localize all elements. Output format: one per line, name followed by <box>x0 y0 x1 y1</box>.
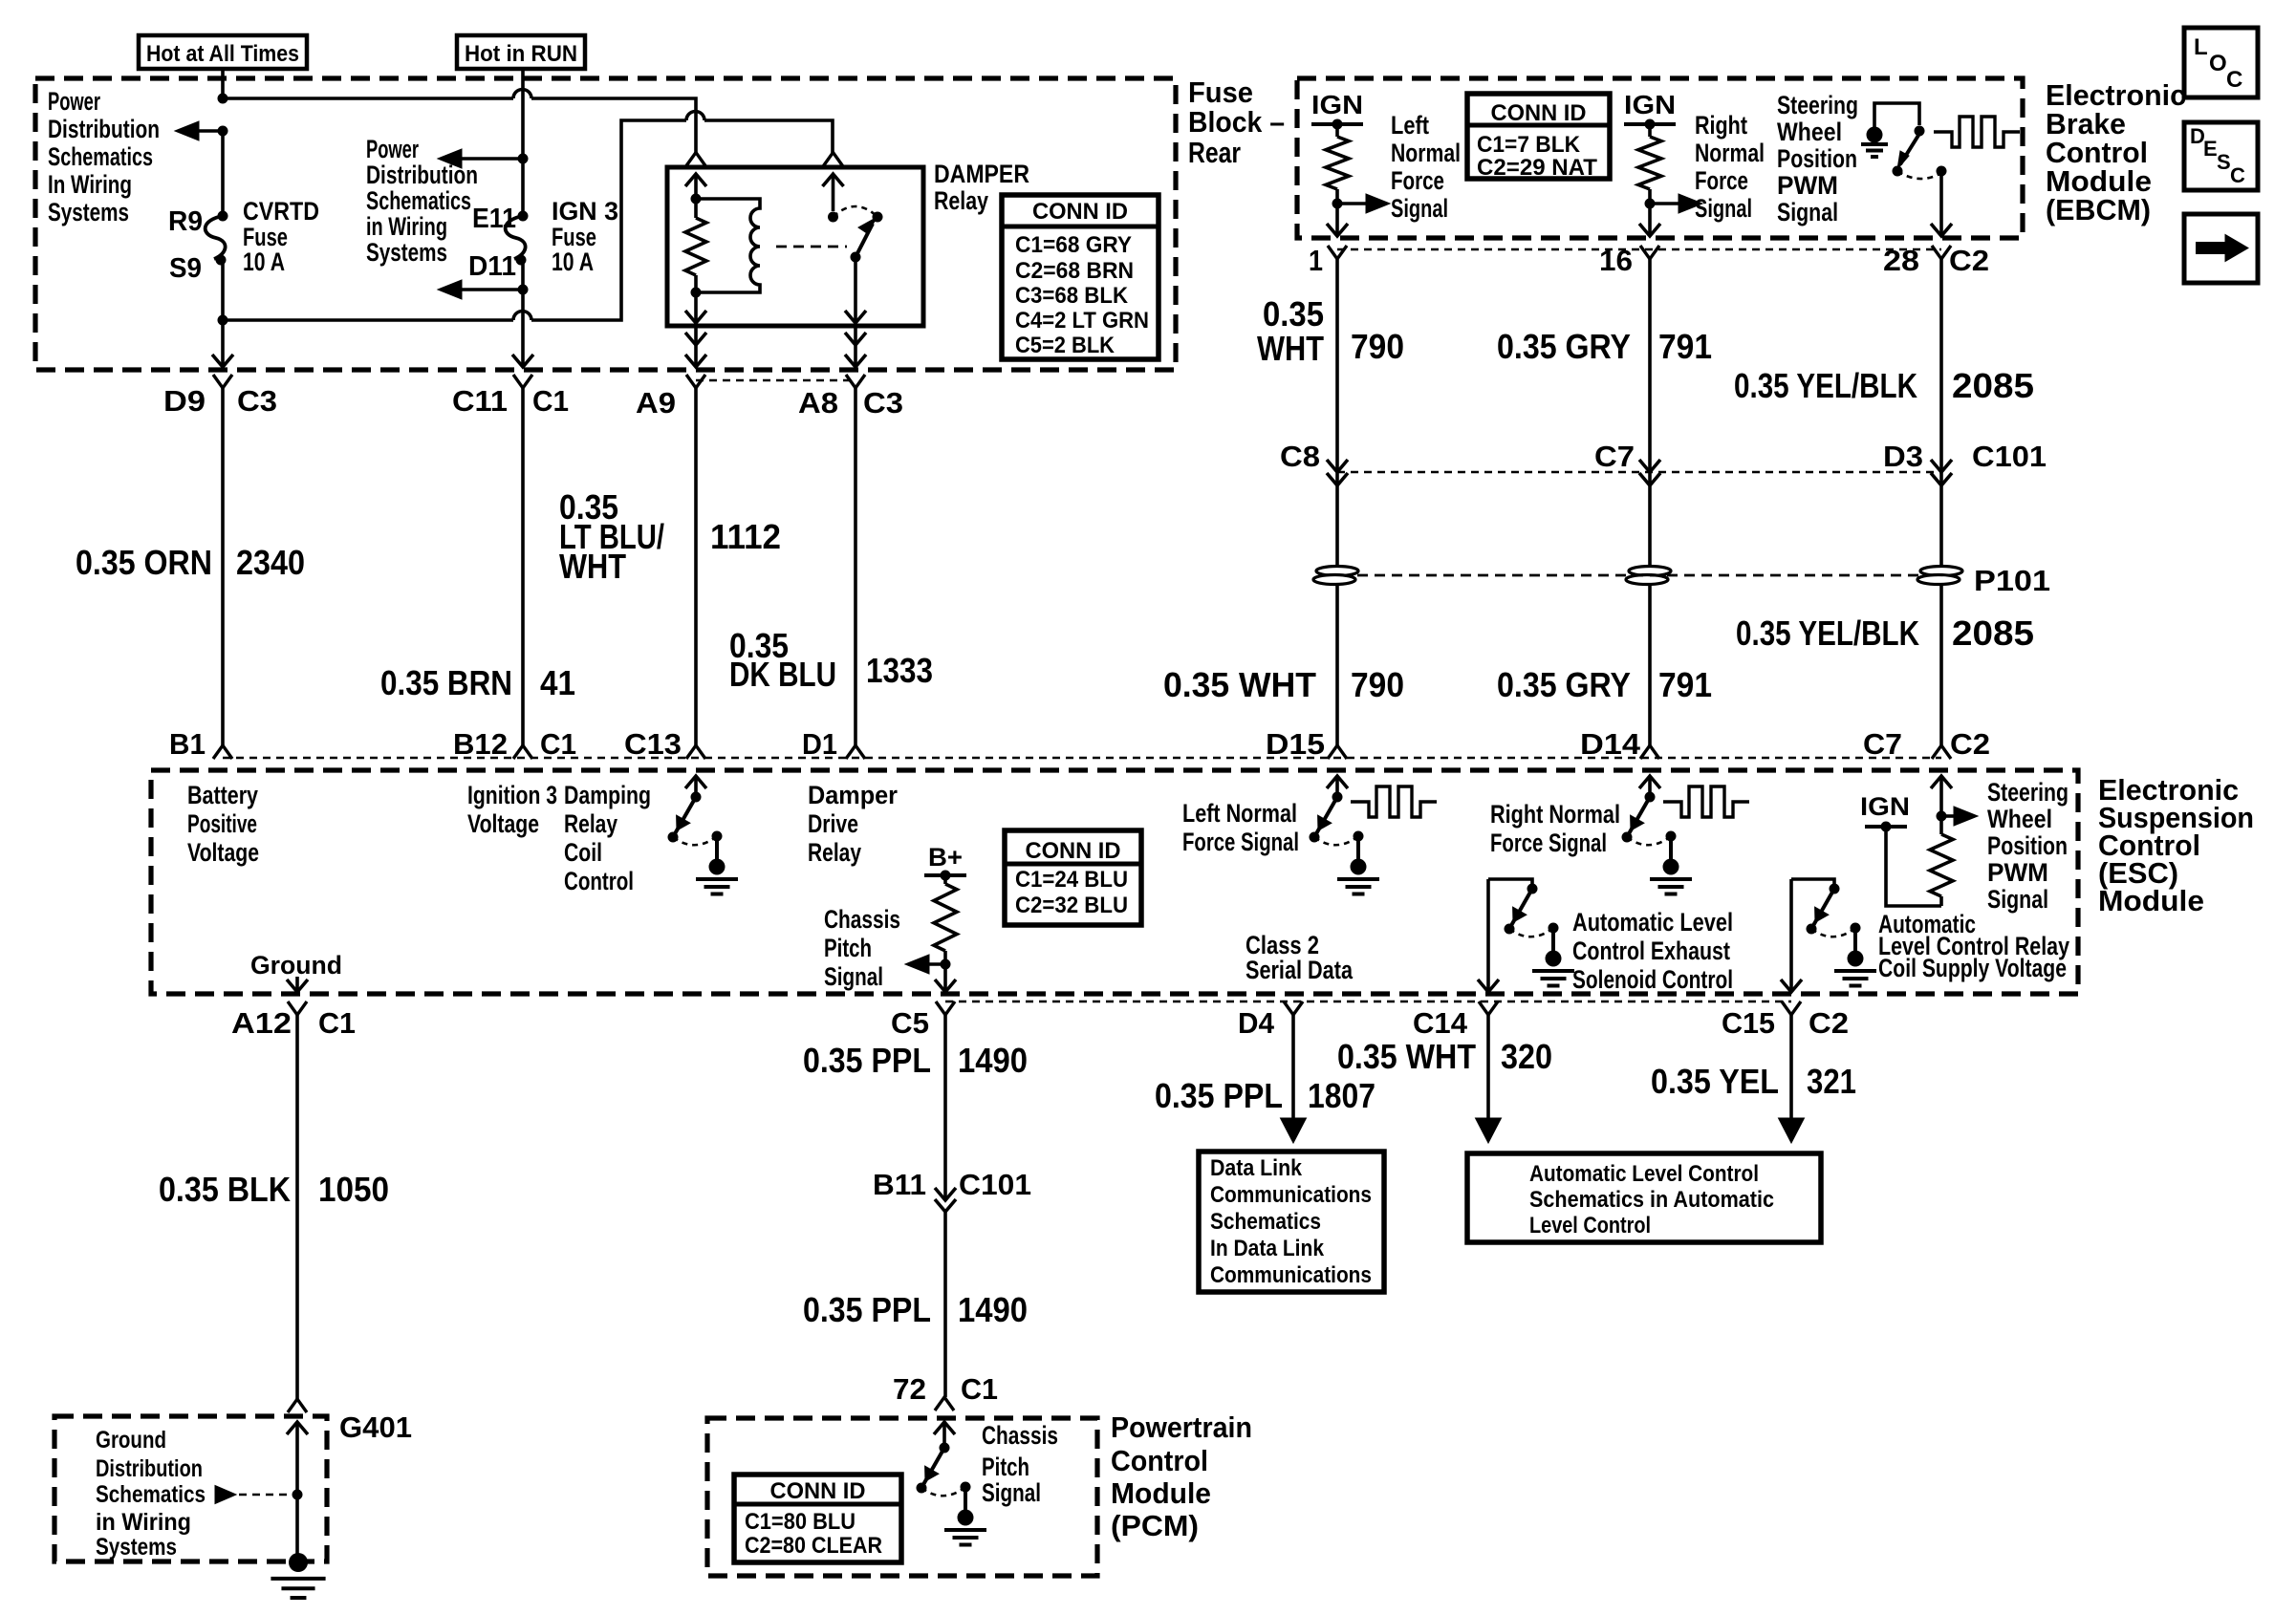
svg-text:Signal: Signal <box>824 962 883 991</box>
svg-text:Hot in RUN: Hot in RUN <box>465 41 577 67</box>
svg-text:790: 790 <box>1351 327 1404 366</box>
table: fuse block CONN ID <box>1002 195 1159 359</box>
node: junction lower arrow on IGN3 wire <box>518 285 529 295</box>
svg-text:D15: D15 <box>1266 727 1325 761</box>
svg-text:0.35 YEL: 0.35 YEL <box>1651 1062 1779 1101</box>
svg-text:Signal: Signal <box>1777 198 1838 226</box>
wire: chassis pitch 0.35 PPL 1490 upper segment <box>943 1015 947 1200</box>
svg-text:Force: Force <box>1695 166 1748 195</box>
arrow: right normal force signal to label <box>1650 202 1681 205</box>
svg-text:Rear: Rear <box>1188 136 1241 169</box>
svg-text:C: C <box>2226 67 2242 93</box>
svg-text:Chassis: Chassis <box>824 905 900 934</box>
svg-text:S9: S9 <box>169 253 202 284</box>
svg-text:C2=29 NAT: C2=29 NAT <box>1477 155 1597 181</box>
svg-text:D11: D11 <box>468 251 516 282</box>
svg-text:C1=24 BLU: C1=24 BLU <box>1015 867 1128 893</box>
arrow: relay switch pin internal <box>823 174 844 186</box>
wire: fused feed from CVRTD to damper relay switch with hop over IGN3 wire <box>223 112 833 321</box>
ground: G401 chassis ground <box>289 1553 308 1572</box>
switch: relay movable arm <box>873 212 883 223</box>
reference box: LOC <box>2184 28 2258 97</box>
svg-text:IGN: IGN <box>1624 90 1676 119</box>
dashed connector line ESC bottom <box>945 1001 1791 1002</box>
connector feathers: ESC pin D15 <box>1328 745 1347 759</box>
svg-text:G401: G401 <box>339 1410 412 1444</box>
svg-text:0.35 GRY: 0.35 GRY <box>1497 665 1631 704</box>
svg-text:CONN ID: CONN ID <box>1032 199 1128 225</box>
svg-text:C2: C2 <box>1809 1006 1849 1040</box>
svg-text:Right: Right <box>1695 111 1747 140</box>
svg-text:in Wiring: in Wiring <box>366 212 447 241</box>
dashed connector line C101 <box>1337 471 1941 473</box>
svg-text:1807: 1807 <box>1308 1076 1375 1115</box>
svg-text:Schematics: Schematics <box>1210 1209 1321 1235</box>
ground: steering wheel position switch ground (EBCM) <box>1867 127 1883 143</box>
svg-text:C4=2 LT GRN: C4=2 LT GRN <box>1015 308 1149 334</box>
arrow: power distribution reference upper left from IGN3 wire <box>461 157 523 161</box>
svg-text:CVRTD: CVRTD <box>243 197 319 226</box>
svg-text:In Wiring: In Wiring <box>48 170 132 199</box>
power feed label box: Hot in RUN <box>457 35 585 69</box>
node: relay arm pivot <box>851 252 861 263</box>
node: chassis pitch signal junction <box>941 959 951 970</box>
svg-text:(EBCM): (EBCM) <box>2046 193 2151 226</box>
svg-text:C1: C1 <box>318 1006 356 1040</box>
svg-text:320: 320 <box>1501 1037 1552 1076</box>
fuse: IGN 3 Fuse 10 A <box>506 216 526 259</box>
connector feathers: ESC pin C5 <box>936 1001 955 1015</box>
resistor: right normal force pull-up <box>1648 124 1652 137</box>
svg-text:Control Exhaust: Control Exhaust <box>1572 937 1730 965</box>
svg-text:72: 72 <box>893 1372 926 1406</box>
connector feathers: ESC pin C13 <box>686 745 705 759</box>
svg-text:Signal: Signal <box>982 1478 1041 1507</box>
node: right normal force signal junction <box>1645 199 1656 209</box>
connector feathers: pin A8 <box>846 375 865 388</box>
svg-text:Force: Force <box>1391 166 1444 195</box>
svg-text:CONN ID: CONN ID <box>770 1478 866 1504</box>
svg-text:PWM: PWM <box>1777 171 1838 200</box>
svg-text:D3: D3 <box>1883 440 1923 473</box>
svg-text:Ignition 3: Ignition 3 <box>467 781 557 809</box>
svg-text:Wheel: Wheel <box>1777 118 1842 146</box>
wire: battery feed from Hot at All Times to damper relay coil, hop over IGN3 wire <box>223 69 696 153</box>
svg-text:1490: 1490 <box>958 1041 1028 1080</box>
svg-text:C1: C1 <box>532 384 569 418</box>
svg-text:S: S <box>2217 150 2231 174</box>
arrow: steering wheel position signal to label <box>1941 814 1957 818</box>
svg-text:C2: C2 <box>1949 244 1989 277</box>
svg-text:C11: C11 <box>452 384 508 418</box>
svg-text:C14: C14 <box>1413 1006 1468 1040</box>
svg-text:Systems: Systems <box>366 238 447 267</box>
inline connector P101 on middle wire <box>1629 567 1671 576</box>
wire: steering wheel position 0.35 YEL/BLK 2085 EBCM to ESC C7 <box>1939 259 1943 745</box>
svg-text:Systems: Systems <box>48 198 129 226</box>
svg-text:1490: 1490 <box>958 1290 1028 1329</box>
svg-text:E11: E11 <box>472 204 516 234</box>
relay: DAMPER Relay box <box>667 167 923 326</box>
svg-text:0.35 PPL: 0.35 PPL <box>1155 1076 1283 1115</box>
svg-text:790: 790 <box>1351 665 1404 704</box>
reference box: Data Link Communications <box>1199 1152 1384 1292</box>
resistor: steering wheel position load (ESC) <box>1939 896 1943 906</box>
wire: battery positive 0.35 ORN 2340 to ESC B1 <box>221 388 225 745</box>
svg-text:C1=68 GRY: C1=68 GRY <box>1015 232 1132 258</box>
svg-text:C2=80 CLEAR: C2=80 CLEAR <box>745 1533 882 1559</box>
svg-text:C1: C1 <box>961 1372 998 1406</box>
svg-text:IGN: IGN <box>1860 792 1910 821</box>
svg-text:Serial Data: Serial Data <box>1245 956 1354 984</box>
svg-text:Distribution: Distribution <box>96 1455 203 1482</box>
svg-text:1112: 1112 <box>710 517 781 556</box>
wire: EBCM pin 16 exit <box>1648 204 1652 236</box>
wire: exhaust solenoid control 0.35 WHT 320 <box>1486 1015 1490 1120</box>
svg-text:Relay: Relay <box>808 838 861 867</box>
svg-text:L: L <box>2194 34 2208 60</box>
svg-text:2340: 2340 <box>236 543 305 582</box>
connector feathers: EBCM pin 1 <box>1328 246 1347 259</box>
svg-text:WHT: WHT <box>559 547 626 586</box>
dashed connector line A9-A8 <box>696 379 856 381</box>
power feed label box: Hot at All Times <box>139 35 307 69</box>
svg-text:B+: B+ <box>928 843 963 872</box>
wire: ground 0.35 BLK 1050 to G401 <box>295 1015 299 1399</box>
arrow: left normal force signal to label <box>1337 202 1369 205</box>
svg-text:Relay: Relay <box>564 809 617 838</box>
svg-text:Communications: Communications <box>1210 1182 1372 1208</box>
node: relay coil top junction <box>691 194 702 205</box>
switch: right normal force signal driver <box>1639 776 1660 788</box>
table: PCM CONN ID <box>734 1475 901 1562</box>
svg-text:Power: Power <box>48 87 100 116</box>
arrow: fuse block exit at C11 <box>512 355 533 367</box>
arrow: ground distribution reference <box>215 1486 236 1504</box>
wire: ESC pin C14 exit <box>1486 879 1490 992</box>
dashed connector line EBCM C2 <box>1337 248 1941 250</box>
reference box: Automatic Level Control Schematics <box>1467 1153 1821 1242</box>
connector feathers: ESC pin B12 <box>513 745 532 759</box>
inline connector P101 on left wire <box>1316 567 1358 576</box>
svg-text:Battery: Battery <box>187 781 258 809</box>
svg-text:1: 1 <box>1309 244 1323 277</box>
svg-text:Position: Position <box>1777 144 1857 173</box>
connector feathers: ESC pin D1 <box>846 745 865 759</box>
arrow: chassis pitch signal to label <box>914 962 945 966</box>
svg-text:B11: B11 <box>873 1168 926 1201</box>
reference box: DESC <box>2184 122 2258 190</box>
svg-text:Block –: Block – <box>1188 105 1285 139</box>
fuse: CVRTD Fuse 10 A <box>206 216 226 259</box>
inline connector P101 on right wire <box>1920 567 1962 576</box>
wire: damper drive 0.35 DK BLU 1333 to ESC D1 <box>854 388 857 745</box>
connector feathers: ESC pin C7/C2 <box>1932 745 1951 759</box>
connector feathers: ESC pin B1 <box>213 745 232 759</box>
table: EBCM CONN ID <box>1467 94 1610 179</box>
svg-text:C2=32 BLU: C2=32 BLU <box>1015 893 1128 918</box>
svg-text:10 A: 10 A <box>243 248 285 276</box>
svg-text:Signal: Signal <box>1987 885 2048 914</box>
svg-text:Coil Supply Voltage: Coil Supply Voltage <box>1878 954 2067 982</box>
svg-text:C8: C8 <box>1280 440 1320 473</box>
svg-text:Systems: Systems <box>96 1534 177 1561</box>
svg-text:0.35 WHT: 0.35 WHT <box>1163 665 1316 704</box>
svg-text:D9: D9 <box>163 384 206 418</box>
inline connector C8 chevrons <box>1327 460 1348 472</box>
svg-text:PWM: PWM <box>1987 858 2048 887</box>
svg-text:Normal: Normal <box>1391 139 1461 167</box>
svg-text:C5: C5 <box>891 1006 929 1040</box>
node: steering wheel position junction (ESC) <box>1937 811 1947 822</box>
connector feathers: PCM pin 72 entry <box>935 1397 954 1410</box>
svg-text:Fuse: Fuse <box>1188 75 1253 109</box>
svg-text:Signal: Signal <box>1695 194 1752 223</box>
wire: damping relay coil control 0.35 LT BLU/WHT 1112 to ESC C13 <box>694 388 698 745</box>
pwm waveform glyph left normal force <box>1351 786 1437 817</box>
EBCM dashed boundary box <box>1297 78 2023 238</box>
svg-text:Schematics: Schematics <box>96 1481 206 1508</box>
switch: chassis pitch signal driver (PCM) <box>934 1422 955 1434</box>
wire: ESC pin C5 exit <box>943 964 947 992</box>
svg-text:Chassis: Chassis <box>982 1421 1058 1450</box>
svg-text:Voltage: Voltage <box>467 809 539 838</box>
svg-text:Drive: Drive <box>808 809 858 838</box>
wire: Hot in RUN down to IGN3 fuse <box>521 69 525 216</box>
node: relay switch fixed contact <box>828 212 838 223</box>
svg-text:Hot at All Times: Hot at All Times <box>146 41 299 67</box>
node: battery feed junction at CVRTD wire <box>218 94 228 104</box>
wire: G401 internal ground wire <box>287 1422 308 1434</box>
svg-text:C5=2 BLK: C5=2 BLK <box>1015 333 1116 358</box>
connector feathers: ESC pin C15 <box>1782 1001 1801 1015</box>
svg-text:Powertrain: Powertrain <box>1111 1410 1252 1444</box>
connector feathers: EBCM pin 28 <box>1932 246 1951 259</box>
svg-text:(PCM): (PCM) <box>1111 1509 1199 1542</box>
svg-text:1333: 1333 <box>866 651 933 690</box>
connector feathers: ESC pin C14 <box>1479 1001 1498 1015</box>
svg-text:C1=7 BLK: C1=7 BLK <box>1477 132 1581 158</box>
svg-text:0.35 GRY: 0.35 GRY <box>1497 327 1631 366</box>
svg-text:B1: B1 <box>169 727 206 761</box>
svg-text:Control: Control <box>564 867 634 895</box>
svg-text:C3: C3 <box>237 384 277 418</box>
svg-text:C7: C7 <box>1863 727 1902 761</box>
svg-text:0.35 BRN: 0.35 BRN <box>380 663 512 702</box>
svg-text:Module: Module <box>1111 1476 1211 1510</box>
svg-text:Steering: Steering <box>1987 778 2069 807</box>
svg-text:Voltage: Voltage <box>187 838 259 867</box>
svg-text:Normal: Normal <box>1695 139 1765 167</box>
svg-text:DAMPER: DAMPER <box>934 160 1029 188</box>
svg-text:Damper: Damper <box>808 781 898 809</box>
svg-text:WHT: WHT <box>1257 329 1324 368</box>
wire: EBCM pin 28 exit <box>1939 171 1943 236</box>
svg-text:Schematics: Schematics <box>366 186 471 215</box>
wire: IGN to resistor bottom elbow <box>1886 827 1941 906</box>
svg-text:Left: Left <box>1391 111 1429 140</box>
svg-text:B12: B12 <box>453 727 508 761</box>
svg-text:0.35 PPL: 0.35 PPL <box>803 1290 931 1329</box>
svg-text:in Wiring: in Wiring <box>96 1509 191 1536</box>
wire: relay switch output A8 to fuse block border <box>854 326 857 367</box>
svg-text:Signal: Signal <box>1391 194 1448 223</box>
svg-text:C3: C3 <box>863 386 903 420</box>
pwm waveform glyph right normal force <box>1663 786 1749 817</box>
svg-text:Pitch: Pitch <box>982 1453 1029 1481</box>
connector feathers: relay switch pin entry <box>824 153 843 166</box>
svg-text:0.35 YEL/BLK: 0.35 YEL/BLK <box>1736 614 1919 653</box>
wire: IGN3 fuse output down to C11 exit <box>521 260 525 367</box>
svg-text:C101: C101 <box>959 1168 1031 1201</box>
svg-text:C1: C1 <box>540 727 576 761</box>
svg-text:0.35 BLK: 0.35 BLK <box>159 1170 291 1209</box>
svg-text:C2: C2 <box>1950 727 1990 761</box>
svg-text:2085: 2085 <box>1952 614 2034 653</box>
svg-text:791: 791 <box>1658 327 1712 366</box>
svg-text:Distribution: Distribution <box>48 115 160 143</box>
dashed link: ground reference to wire <box>239 1494 297 1497</box>
svg-text:C3=68 BLK: C3=68 BLK <box>1015 283 1129 309</box>
svg-text:16: 16 <box>1599 244 1633 277</box>
svg-text:C: C <box>2230 163 2245 187</box>
dashed connector line P101 <box>1357 574 1921 577</box>
svg-text:Ground: Ground <box>250 951 342 980</box>
wire: chassis pitch 0.35 PPL 1490 lower segment <box>943 1212 947 1397</box>
table: ESC CONN ID <box>1005 830 1141 925</box>
wire: EBCM pin 1 exit <box>1335 204 1339 236</box>
wire: ignition 3 0.35 BRN 41 to ESC B12 <box>521 388 525 745</box>
connector feathers: pin D9 <box>213 375 232 388</box>
svg-text:C101: C101 <box>1972 440 2047 473</box>
connector feathers: pin C11 <box>513 375 532 388</box>
svg-text:IGN: IGN <box>1311 90 1363 119</box>
node: relay coil bottom junction <box>691 288 702 298</box>
svg-text:Wheel: Wheel <box>1987 805 2052 833</box>
svg-text:2085: 2085 <box>1952 366 2034 405</box>
svg-text:C13: C13 <box>624 727 682 761</box>
svg-text:Schematics: Schematics <box>48 142 153 171</box>
wire: class 2 serial data 0.35 PPL 1807 <box>1291 1015 1295 1120</box>
svg-text:1050: 1050 <box>318 1170 389 1209</box>
svg-text:CONN ID: CONN ID <box>1491 100 1587 126</box>
switch: damping relay coil control driver <box>685 776 706 788</box>
svg-text:Position: Position <box>1987 831 2068 860</box>
svg-text:Data Link: Data Link <box>1210 1155 1303 1181</box>
svg-text:Automatic Level: Automatic Level <box>1572 908 1733 937</box>
svg-text:0.35 WHT: 0.35 WHT <box>1337 1037 1476 1076</box>
svg-text:Force Signal: Force Signal <box>1182 828 1299 856</box>
svg-text:DK BLU: DK BLU <box>729 655 836 694</box>
svg-text:In Data Link: In Data Link <box>1210 1236 1325 1261</box>
connector feathers: ESC pin D4 <box>1284 1001 1303 1015</box>
svg-text:R9: R9 <box>168 206 203 237</box>
svg-text:Relay: Relay <box>934 186 988 215</box>
node: left normal force signal junction <box>1332 199 1343 209</box>
svg-text:O: O <box>2209 51 2227 76</box>
connector feathers: G401 entry <box>288 1399 307 1412</box>
svg-text:A8: A8 <box>798 386 838 420</box>
svg-text:A9: A9 <box>636 386 676 420</box>
switch: automatic level control relay coil driver <box>1791 879 1834 886</box>
node: junction upper arrow on IGN3 wire <box>518 154 529 164</box>
dashed link: relay actuation <box>776 246 847 248</box>
switch: steering wheel position switch arm (EBCM) <box>1900 134 1919 164</box>
svg-text:C7: C7 <box>1594 440 1635 473</box>
inline connector C7 chevrons <box>1639 460 1660 472</box>
PCM dashed boundary box <box>707 1418 1097 1576</box>
svg-text:C2=68 BRN: C2=68 BRN <box>1015 258 1134 284</box>
connector feathers: ESC pin A12 <box>288 1001 307 1015</box>
svg-text:D14: D14 <box>1580 727 1641 761</box>
svg-text:A12: A12 <box>231 1006 292 1040</box>
svg-text:Solenoid Control: Solenoid Control <box>1572 965 1733 994</box>
inline connector B11 C101 <box>935 1188 956 1200</box>
node: steering switch output (EBCM) <box>1937 166 1947 177</box>
arrow: power distribution reference left from CVRTD wire <box>198 129 223 133</box>
svg-text:Damping: Damping <box>564 781 651 809</box>
svg-text:Pitch: Pitch <box>824 934 872 962</box>
node: junction to relay switch feed <box>218 315 228 326</box>
wire: CVRTD fuse output down to D9 exit <box>221 260 225 367</box>
connector feathers: ESC pin D14 <box>1640 745 1659 759</box>
svg-text:CONN ID: CONN ID <box>1026 838 1121 864</box>
wire: ESC pin C15 exit <box>1789 879 1793 992</box>
svg-text:D4: D4 <box>1238 1006 1275 1040</box>
svg-text:Positive: Positive <box>187 809 257 838</box>
reference box: next page arrow <box>2184 214 2258 283</box>
resistor: left normal force pull-up <box>1335 124 1339 137</box>
svg-text:41: 41 <box>540 663 575 702</box>
wire: ESC pin A12 exit <box>295 977 299 992</box>
fuse block rear dashed boundary box <box>35 78 1176 370</box>
svg-text:IGN 3: IGN 3 <box>552 197 618 226</box>
svg-text:P101: P101 <box>1974 564 2050 597</box>
svg-text:Communications: Communications <box>1210 1262 1372 1288</box>
svg-text:Force Signal: Force Signal <box>1490 829 1607 857</box>
switch: left normal force signal driver <box>1327 776 1348 788</box>
svg-text:321: 321 <box>1807 1062 1856 1101</box>
wire: relay coil output A9 to fuse block border <box>694 326 698 367</box>
wire: ESC pin C7/C2 internal entry <box>1931 776 1952 788</box>
wire: relay coil to box bottom exit <box>694 292 698 323</box>
svg-text:Coil: Coil <box>564 838 602 867</box>
connector feathers: pin A9 <box>686 375 705 388</box>
wire: level control relay coil 0.35 YEL 321 <box>1789 1015 1793 1120</box>
svg-text:Schematics in Automatic: Schematics in Automatic <box>1529 1187 1774 1213</box>
svg-text:Power: Power <box>366 135 419 163</box>
wire: relay switch output to box bottom exit <box>854 257 857 323</box>
inductor: relay coil winding <box>696 199 760 292</box>
svg-text:Control: Control <box>1111 1444 1208 1477</box>
svg-text:Ground: Ground <box>96 1427 166 1453</box>
arrow: relay coil pin internal <box>685 174 706 186</box>
svg-text:791: 791 <box>1658 665 1712 704</box>
svg-text:0.35 YEL/BLK: 0.35 YEL/BLK <box>1734 366 1917 405</box>
svg-text:Level Control: Level Control <box>1529 1213 1651 1238</box>
connector feathers: relay coil pin entry <box>686 153 705 166</box>
switch: automatic level control exhaust solenoid driver <box>1488 879 1532 886</box>
wire: ground bracket to switch contact <box>1874 103 1919 135</box>
svg-text:C1=80 BLU: C1=80 BLU <box>745 1509 856 1535</box>
svg-text:E: E <box>2203 137 2218 161</box>
svg-text:C15: C15 <box>1722 1006 1775 1040</box>
svg-text:0.35 PPL: 0.35 PPL <box>803 1041 931 1080</box>
svg-text:0.35 ORN: 0.35 ORN <box>76 543 212 582</box>
svg-text:D1: D1 <box>802 727 837 761</box>
arrow: fuse block exit at D9 <box>212 355 233 367</box>
svg-text:Right Normal: Right Normal <box>1490 800 1620 829</box>
